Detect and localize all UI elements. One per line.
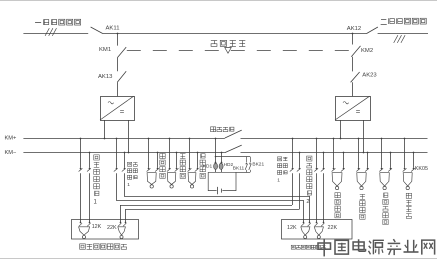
- label KM1: [99, 47, 111, 53]
- outdoor DC box 室外直流电源箱: [72, 220, 139, 240]
- contactor KM2: [351, 46, 360, 57]
- fuse plug 交流屏控制R: [380, 173, 390, 190]
- wire outdoor-1 + branch: [80, 138, 82, 223]
- switch BK11: [245, 157, 248, 173]
- label KM+: [5, 135, 18, 141]
- svg-text:KM−: KM−: [5, 150, 18, 156]
- contactor KM1: [117, 47, 126, 58]
- switch AK13: [117, 71, 126, 82]
- contact outdoor-1 +: [79, 168, 83, 172]
- contact 事故照明R -: [411, 168, 415, 172]
- fuse plug 控制电源: [147, 173, 156, 188]
- label 室内直流电源箱: [291, 245, 325, 249]
- label BK11: [233, 165, 245, 171]
- svg-text:1: 1: [127, 182, 130, 188]
- wire 交流屏控制R + branch: [381, 138, 383, 168]
- label 母联开关: [211, 127, 234, 132]
- svg-text:1: 1: [277, 178, 280, 184]
- contact 控制电源R +: [332, 168, 336, 172]
- contact 控制电源 -: [155, 168, 159, 172]
- label 室内电机回路2: [306, 156, 312, 205]
- wire 控制电源 + branch: [148, 138, 150, 168]
- svg-text:22K: 22K: [328, 225, 338, 231]
- contact 信号电源 +: [167, 168, 171, 172]
- indoor box fuse pair 2: [314, 222, 324, 239]
- contact 事故照明R +: [403, 168, 407, 172]
- 3-phase marks feeder 2: [394, 35, 405, 43]
- label AK12: [347, 26, 361, 32]
- wire battery - drop: [221, 153, 223, 163]
- label KM2: [361, 48, 373, 54]
- bus KM- left: [23, 152, 225, 154]
- label 控制电源 right: [335, 193, 340, 218]
- bus tie switch KM- pole: [225, 145, 242, 153]
- bus KM- right: [241, 152, 428, 154]
- label HD1: [203, 163, 213, 169]
- fuse plug 信号电源R: [357, 173, 366, 190]
- switch BK21: [249, 157, 252, 173]
- wire AK12 to KM2: [352, 34, 354, 45]
- fuse HD2: [219, 162, 223, 173]
- wire AC feeder 1: [23, 33, 88, 35]
- contact 逆变电源 -: [195, 168, 199, 172]
- wire U2 - output: [363, 120, 365, 153]
- svg-text:AK13: AK13: [98, 74, 113, 80]
- bus KM+ left: [23, 138, 225, 140]
- label 逆变电源 left: [200, 153, 205, 178]
- node top bus tap left: [117, 33, 119, 35]
- switch AK23: [351, 72, 360, 82]
- wire 控制电源R - branch: [343, 153, 345, 168]
- fuse plug 逆变电源: [188, 173, 196, 188]
- bus tie switch KM+ pole: [225, 130, 242, 138]
- wire outdoor-1 - branch: [89, 153, 91, 223]
- label KM-: [5, 150, 18, 156]
- label 室外直流电源箱: [80, 244, 127, 250]
- wire indoor-2 - branch: [323, 153, 325, 223]
- fuse plug 事故照明R: [403, 173, 412, 190]
- contact 信号电源R -: [365, 168, 369, 172]
- svg-text:AK11: AK11: [106, 25, 120, 31]
- label 室外电机回路1 left: [94, 155, 100, 206]
- label 12K indoor: [287, 225, 297, 231]
- auto-transfer triangle marker: [225, 48, 232, 54]
- svg-text:12K: 12K: [92, 224, 102, 230]
- contact indoor-2 +: [314, 168, 318, 172]
- contact indoor-1 +: [114, 168, 118, 172]
- watermark 中国电源产业网: [318, 239, 435, 257]
- wire 事故照明R + branch: [404, 138, 406, 168]
- indoor DC box 室内直流电源箱: [282, 220, 353, 240]
- wire AC feeder 2: [378, 33, 428, 35]
- wire 信号电源R - branch: [367, 153, 369, 168]
- wire AK23 to rectifier U2: [352, 82, 354, 96]
- wire U2 + output: [340, 120, 342, 138]
- wire 逆变电源 + branch: [189, 138, 191, 168]
- wire 控制电源R + branch: [333, 138, 335, 168]
- svg-text:KM1: KM1: [99, 47, 111, 53]
- contact 逆变电源 +: [188, 168, 192, 172]
- contact indoor-2 -: [321, 168, 325, 172]
- label 室外电机回路1 right: [277, 157, 287, 184]
- wire 控制电源 - branch: [157, 153, 159, 168]
- contact indoor-1 -: [122, 168, 126, 172]
- svg-text:AK23: AK23: [362, 72, 377, 78]
- wire 事故照明R - branch: [413, 153, 415, 168]
- svg-text:HD1: HD1: [203, 163, 213, 169]
- label 交流屏控制 right: [383, 193, 388, 225]
- contact outdoor-1R -: [297, 168, 301, 172]
- switch AK12: [366, 27, 378, 34]
- label KK05: [415, 166, 428, 172]
- battery loop wiring: [208, 172, 236, 190]
- indoor box fuse pair 1: [301, 222, 311, 239]
- svg-text:KM+: KM+: [5, 135, 18, 141]
- label AK11: [106, 25, 120, 31]
- 3-phase marks feeder 1: [45, 28, 56, 36]
- wire AK13 to rectifier U1: [117, 82, 119, 96]
- label 22K indoor: [328, 225, 338, 231]
- wire U1 - output: [128, 120, 130, 153]
- wire 信号电源 - branch: [176, 153, 178, 168]
- label feeder-1 一路交流进线: [35, 19, 81, 25]
- svg-text:BK11: BK11: [233, 165, 245, 171]
- svg-text:KM2: KM2: [361, 48, 373, 54]
- label AK13: [98, 74, 113, 80]
- label BK21: [252, 162, 264, 168]
- label 信号电源 right: [360, 194, 365, 219]
- bus KM+ right: [241, 138, 428, 140]
- outdoor box fuse pair 2: [118, 222, 127, 239]
- wire U1 + output: [104, 120, 106, 138]
- svg-text:22K: 22K: [107, 225, 117, 231]
- outdoor box fuse pair 1: [79, 222, 91, 239]
- junction dots KM- bus: [89, 152, 415, 154]
- label 控制电源 left: [160, 153, 165, 178]
- fuse plug 控制电源R: [332, 173, 342, 190]
- contact 信号电源R +: [356, 168, 360, 172]
- junction dots KM+ bus: [80, 138, 406, 140]
- wire top AC bus: [103, 33, 367, 35]
- contact 控制电源 +: [147, 168, 151, 172]
- label 信号电源 left: [180, 154, 185, 179]
- svg-text:AK12: AK12: [347, 26, 361, 32]
- wire route into indoor pair1: [304, 196, 310, 223]
- contact 信号电源 -: [175, 168, 179, 172]
- rectifier U2: [335, 96, 371, 120]
- dashed auto-transfer link: [127, 50, 351, 52]
- svg-text:KK05: KK05: [415, 166, 428, 172]
- label 事故照明 right: [406, 193, 411, 218]
- wire outdoor-1R + branch: [120, 138, 293, 223]
- wire 逆变电源 - branch: [197, 153, 199, 168]
- wire 交流屏控制R - branch: [390, 153, 392, 168]
- node top bus tap right: [352, 33, 354, 35]
- svg-text:12K: 12K: [287, 225, 297, 231]
- contact 交流屏控制R +: [379, 168, 383, 172]
- wire KM1 to AK13: [117, 58, 119, 71]
- wire 信号电源 + branch: [169, 138, 171, 168]
- wire battery control link: [215, 156, 250, 158]
- wire 信号电源R + branch: [358, 138, 360, 168]
- wire indoor-1 - branch: [124, 153, 310, 197]
- label 12K outdoor: [92, 224, 102, 230]
- svg-text:BK21: BK21: [252, 162, 264, 168]
- label AK23: [362, 72, 377, 78]
- fuse HD1: [214, 162, 218, 173]
- wire battery + drop: [215, 138, 217, 163]
- wire outdoor-1R - branch: [125, 153, 300, 223]
- label 室内电机回路1: [127, 162, 137, 188]
- wire indoor-1 + branch: [116, 138, 303, 201]
- fuse plug 信号电源: [167, 173, 175, 188]
- contact 交流屏控制R -: [388, 168, 392, 172]
- contact outdoor-1R +: [290, 168, 294, 172]
- switch AK11: [91, 27, 103, 34]
- contact 控制电源R -: [341, 168, 345, 172]
- contact outdoor-1 -: [87, 168, 91, 172]
- label 22K outdoor: [107, 225, 117, 231]
- battery GB: [218, 187, 222, 194]
- wire indoor-2 + branch: [316, 138, 318, 223]
- rectifier U1: [100, 96, 135, 120]
- wire AK11 to KM1: [117, 34, 119, 46]
- wire battery loop to BK switches: [236, 172, 250, 174]
- label HD2: [224, 162, 234, 168]
- label 自动投切: [211, 40, 246, 46]
- wire KM2 to AK23: [352, 57, 354, 72]
- label feeder-2 二路交流进线: [381, 18, 427, 24]
